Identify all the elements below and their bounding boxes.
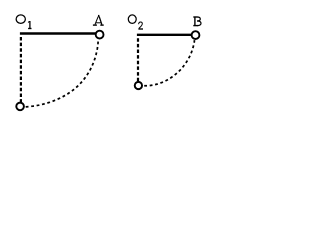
label O2 : letter O xyxy=(128,15,136,24)
label O1 : letter O xyxy=(16,15,25,24)
dashed radius below O2 xyxy=(137,38,139,82)
segment O1A xyxy=(20,32,96,34)
point B marker xyxy=(192,31,200,39)
label O2 : subscript 2 xyxy=(138,22,143,29)
dotted arc bottom point to B xyxy=(144,40,194,86)
dotted arc bottom point to A xyxy=(26,40,99,107)
label O1 : subscript 1 xyxy=(28,21,31,29)
label B xyxy=(193,17,201,26)
bottom point marker (rotated B) xyxy=(135,82,142,89)
label A xyxy=(93,15,104,25)
dashed radius below O1 xyxy=(20,37,22,103)
point A marker xyxy=(96,31,104,39)
bottom point marker (rotated A) xyxy=(16,103,24,111)
segment O2B xyxy=(137,34,192,36)
